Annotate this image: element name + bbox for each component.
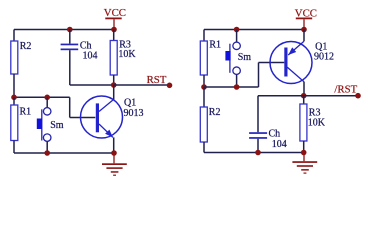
svg-text:R2: R2	[20, 41, 32, 52]
svg-text:Sm: Sm	[50, 120, 64, 131]
node RST end dot	[167, 83, 173, 89]
transistor Q1 9012	[270, 30, 334, 96]
svg-text:104: 104	[272, 139, 287, 150]
power VCC left	[104, 7, 126, 29]
wire R2 bottom stub	[13, 74, 15, 97]
wire R1 bottom stub (right)	[203, 75, 205, 87]
wire bottom rail (right)	[204, 152, 304, 154]
node cap top tap	[67, 27, 73, 33]
wire R2 top stub (right)	[203, 87, 205, 107]
transistor Q1 9013	[81, 85, 144, 153]
svg-text:Ch: Ch	[269, 129, 281, 140]
svg-text:Sm: Sm	[238, 52, 252, 63]
node cap bottom tap (right)	[255, 150, 261, 156]
wire Sm top stub	[46, 97, 48, 107]
wire mid rail (right)	[204, 86, 259, 88]
wire RST output	[114, 84, 170, 86]
power VCC right	[295, 7, 317, 29]
wire base to Q1	[70, 117, 96, 119]
resistor R1 (right)	[200, 40, 221, 75]
wire base jog down	[69, 97, 71, 117]
wire R1 bottom stub	[13, 141, 15, 154]
switch Sm	[37, 108, 64, 142]
wire cap top stub (right)	[257, 96, 259, 133]
node RST junction	[111, 82, 117, 88]
svg-text:104: 104	[83, 51, 98, 62]
capacitor Ch	[61, 41, 98, 62]
wire R2 top stub	[13, 30, 15, 42]
node Sm top tap	[44, 95, 50, 101]
node VCC junction (right)	[301, 27, 307, 33]
node /RST junction	[301, 93, 307, 99]
wire top rail left	[14, 29, 114, 31]
svg-text:R1: R1	[209, 40, 221, 51]
wire R3 top stub	[113, 30, 115, 41]
node Sm bottom tap (right)	[234, 84, 240, 90]
svg-text:9013: 9013	[124, 108, 144, 119]
wire R1 top stub (right)	[203, 30, 205, 42]
capacitor Ch (right)	[249, 129, 287, 151]
wire base jog up (right)	[258, 63, 260, 88]
switch Sm (right)	[225, 42, 251, 74]
resistor R1	[11, 105, 31, 141]
ground right	[292, 153, 317, 174]
wire cap bottom stub (right)	[257, 139, 259, 153]
node Sm top tap (right)	[234, 27, 240, 33]
wire Sm top stub (right)	[236, 30, 238, 42]
resistor R2 (right)	[200, 107, 220, 142]
svg-text:VCC: VCC	[104, 7, 126, 19]
svg-text:Q1: Q1	[124, 98, 136, 109]
node mid rail left junction	[201, 84, 207, 90]
wire top rail right	[204, 29, 304, 31]
svg-text:/RST: /RST	[334, 84, 357, 96]
svg-text:Q1: Q1	[315, 41, 327, 52]
wire cap top stub	[69, 30, 71, 44]
node junction R2/R1	[11, 95, 17, 101]
wire cap bottom stub	[69, 50, 71, 85]
wire R3 bottom stub	[113, 75, 115, 85]
wire Sm bottom stub (right)	[236, 75, 238, 87]
resistor R2	[11, 41, 32, 74]
resistor R3	[110, 39, 136, 75]
svg-text:10K: 10K	[118, 49, 136, 60]
wire R3 top stub (right)	[303, 96, 305, 104]
svg-text:9012: 9012	[314, 52, 334, 63]
wire R3 bottom stub (right)	[303, 141, 305, 153]
svg-text:R2: R2	[209, 107, 221, 118]
wire bottom rail	[14, 152, 114, 154]
wire R1 top stub	[13, 97, 15, 105]
ground left	[102, 153, 127, 176]
node /RST end dot	[355, 93, 361, 99]
node R3/ground junction (right)	[301, 150, 307, 156]
svg-text:R1: R1	[20, 107, 32, 118]
node VCC junction	[111, 27, 117, 33]
wire Sm bottom stub	[46, 142, 48, 154]
node emitter/ground junction	[111, 150, 117, 156]
svg-text:10K: 10K	[308, 118, 326, 129]
wire /RST output	[304, 95, 358, 97]
wire mid rail	[14, 96, 70, 98]
node Sm bottom tap	[44, 150, 50, 156]
wire cap to RST node	[70, 84, 114, 86]
svg-text:RST: RST	[147, 74, 167, 86]
wire base to Q1 (right)	[259, 62, 285, 64]
wire cap branch horizontal (right)	[258, 95, 304, 97]
resistor R3 (right)	[300, 104, 326, 141]
wire R2 bottom stub (right)	[203, 142, 205, 153]
